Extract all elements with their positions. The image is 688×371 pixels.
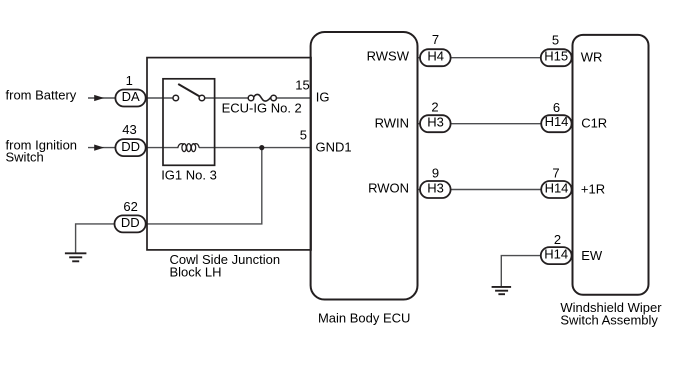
svg-text:1: 1 bbox=[126, 73, 133, 88]
svg-text:H14: H14 bbox=[544, 247, 568, 262]
svg-text:C1R: C1R bbox=[581, 116, 607, 131]
svg-text:IG: IG bbox=[316, 90, 330, 105]
svg-text:43: 43 bbox=[122, 122, 136, 137]
svg-text:DD: DD bbox=[121, 139, 140, 154]
svg-text:5: 5 bbox=[552, 32, 559, 47]
svg-text:H14: H14 bbox=[545, 114, 569, 129]
svg-text:H14: H14 bbox=[545, 180, 569, 195]
svg-text:DD: DD bbox=[121, 215, 140, 230]
svg-text:H3: H3 bbox=[427, 115, 444, 130]
svg-text:Switch: Switch bbox=[6, 150, 44, 165]
svg-text:DA: DA bbox=[122, 89, 140, 104]
svg-text:ECU-IG No. 2: ECU-IG No. 2 bbox=[222, 100, 302, 115]
svg-text:62: 62 bbox=[123, 199, 137, 214]
svg-text:H15: H15 bbox=[544, 49, 568, 64]
svg-text:2: 2 bbox=[554, 232, 561, 247]
svg-text:2: 2 bbox=[431, 100, 438, 115]
svg-text:Switch Assembly: Switch Assembly bbox=[560, 313, 658, 328]
svg-text:from Battery: from Battery bbox=[6, 88, 77, 103]
svg-text:6: 6 bbox=[553, 100, 560, 115]
svg-text:Block LH: Block LH bbox=[170, 264, 222, 279]
svg-text:IG1 No. 3: IG1 No. 3 bbox=[161, 168, 217, 183]
svg-text:GND1: GND1 bbox=[316, 140, 352, 155]
svg-text:Main Body ECU: Main Body ECU bbox=[318, 310, 410, 325]
svg-text:9: 9 bbox=[432, 165, 439, 180]
svg-text:RWSW: RWSW bbox=[367, 49, 410, 64]
svg-text:EW: EW bbox=[581, 248, 603, 263]
svg-text:5: 5 bbox=[300, 127, 307, 142]
svg-text:7: 7 bbox=[552, 165, 559, 180]
svg-text:+1R: +1R bbox=[581, 182, 605, 197]
svg-text:7: 7 bbox=[432, 32, 439, 47]
svg-text:H3: H3 bbox=[427, 180, 444, 195]
svg-text:WR: WR bbox=[581, 50, 603, 65]
svg-text:RWON: RWON bbox=[368, 181, 409, 196]
svg-text:RWIN: RWIN bbox=[375, 115, 409, 130]
svg-text:H4: H4 bbox=[427, 48, 444, 63]
svg-text:15: 15 bbox=[295, 77, 309, 92]
